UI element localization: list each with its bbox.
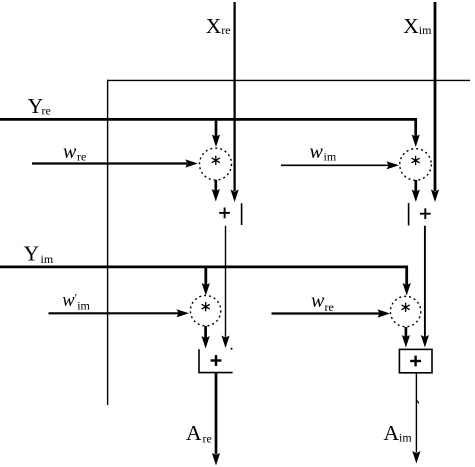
svg-text:im: im [77, 299, 90, 313]
svg-text:re: re [77, 150, 86, 164]
w'im label [62, 290, 90, 312]
wire Yim bus horizontal [0, 265, 408, 268]
multiplier U4 (bottom-right, dashed circle) [390, 296, 420, 326]
wire Yim corner down into multiplier U4 [403, 266, 411, 296]
U3 star operator [202, 303, 209, 311]
wire Are output arrow [212, 373, 220, 465]
multiplier U2 (top-right, dashed circle) [400, 149, 432, 181]
adder S1R plus sign [420, 208, 431, 219]
svg-text:Y: Y [24, 242, 40, 266]
adder S2L partial box [199, 349, 233, 372]
wre label [63, 141, 86, 164]
adder S2R box [399, 349, 432, 372]
node Are label [186, 421, 212, 446]
svg-text:re: re [203, 432, 212, 446]
svg-text:w: w [62, 291, 75, 311]
svg-text:im: im [419, 23, 432, 37]
wire Xre vertical input [231, 2, 239, 202]
wire Aim output arrow [412, 373, 420, 463]
wire Xim vertical input [431, 2, 439, 202]
adder S1R left bar [408, 203, 410, 226]
wire Yre bus horizontal [0, 118, 417, 121]
adder S1L right bar [241, 203, 243, 225]
U2 star operator [412, 156, 419, 164]
wire wre arrow into U1 [32, 159, 198, 167]
multiplier U3 (bottom-left, dashed circle) [190, 296, 220, 326]
svg-text:X: X [206, 14, 222, 38]
wre2 label [311, 290, 334, 314]
wire: top boundary horizontal [107, 79, 470, 81]
svg-text:w: w [310, 141, 324, 163]
wire U4 output arrow [402, 327, 410, 348]
svg-text:im: im [41, 252, 54, 266]
U4 star operator [402, 303, 409, 311]
wire U3 output arrow [202, 326, 210, 349]
wire S1R output down to adder S2R [421, 226, 429, 348]
svg-text:A: A [186, 421, 202, 445]
svg-text:im: im [399, 431, 412, 445]
U1 star operator [212, 156, 219, 164]
svg-text:re: re [325, 300, 334, 314]
stray dot right of S2L input [231, 348, 233, 350]
svg-text:re: re [221, 23, 230, 37]
svg-text:A: A [384, 421, 400, 445]
wire Yim tap down into multiplier U3 [202, 267, 210, 296]
wire wim arrow into U2 [281, 161, 399, 169]
node Yre label [28, 94, 51, 118]
svg-text:w: w [63, 141, 77, 163]
adder S2L plus sign [211, 355, 222, 366]
wire Yre tap down into multiplier U1 [212, 119, 220, 147]
wire S1L output down to adder S2L [221, 226, 229, 348]
wire w'im arrow into U3 [49, 309, 190, 317]
wire U2 output arrow [412, 180, 420, 202]
adder S1L plus sign [219, 208, 230, 219]
node Xim label [403, 14, 432, 38]
node Yim label [24, 242, 54, 267]
wire: left boundary vertical [107, 80, 109, 405]
svg-text:re: re [42, 104, 51, 118]
svg-text:X: X [403, 14, 419, 38]
node Aim label [384, 421, 413, 445]
wire U1 output arrow [212, 180, 220, 202]
svg-text:im: im [324, 149, 337, 163]
wire Yre corner down into multiplier U2 [412, 118, 420, 147]
wim label [310, 141, 337, 164]
adder S2R plus sign [410, 356, 421, 367]
wire wre2 arrow into U4 [272, 309, 391, 317]
multiplier U1 (top-left, dashed circle) [200, 148, 232, 180]
svg-text:w: w [311, 290, 325, 312]
node Xre label [206, 14, 231, 38]
